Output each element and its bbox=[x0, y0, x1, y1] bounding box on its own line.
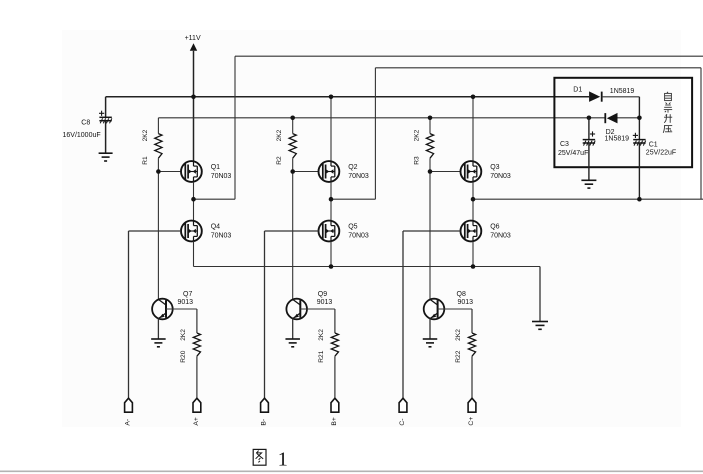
svg-text:70N03: 70N03 bbox=[490, 173, 511, 180]
bootstrap boost box outline bbox=[554, 78, 692, 167]
wire phase C to bootstrap return bbox=[473, 198, 703, 200]
figure caption 图 bbox=[253, 449, 266, 465]
svg-text:1: 1 bbox=[278, 448, 288, 470]
wire R2 bottom to gate node bbox=[292, 158, 294, 171]
svg-text:Q1: Q1 bbox=[211, 164, 220, 171]
wire R20 bottom to connector bbox=[196, 356, 198, 398]
resistor R1 2K2 bbox=[155, 134, 162, 159]
junction Q6 source bbox=[471, 264, 476, 269]
svg-text:Q6: Q6 bbox=[490, 224, 499, 231]
page boundary gray line bbox=[0, 470, 703, 472]
wire input A- drop bbox=[128, 231, 130, 398]
junction D2 cathode C3 top bbox=[587, 116, 592, 121]
svg-text:9013: 9013 bbox=[458, 299, 474, 306]
svg-text:C+: C+ bbox=[468, 417, 475, 426]
wire +11V supply vertical to Q1 drain bbox=[193, 51, 195, 161]
wire gate node R3 down to driver collector bbox=[429, 172, 431, 300]
svg-text:D1: D1 bbox=[573, 86, 582, 93]
svg-text:9013: 9013 bbox=[178, 299, 194, 306]
svg-text:2K2: 2K2 bbox=[414, 129, 421, 141]
svg-text:A-: A- bbox=[125, 419, 132, 426]
connector B- bbox=[261, 398, 269, 412]
wire phase A to feedback riser bbox=[194, 198, 236, 200]
wire phase A feedback vertical bbox=[234, 56, 236, 199]
ground below Q7 emitter bbox=[151, 339, 166, 347]
svg-text:C8: C8 bbox=[81, 120, 90, 127]
wire gate of Q4 bbox=[129, 230, 182, 232]
wire R1 bottom to gate node bbox=[157, 158, 159, 171]
wire Q6 drain from phase C bbox=[472, 199, 474, 220]
transistor Q4 MOSFET 70N03 bbox=[181, 221, 202, 242]
junction phase node A bbox=[191, 197, 196, 202]
junction Q2 drain on rail bbox=[329, 95, 334, 100]
wire gate of Q5 bbox=[265, 230, 319, 232]
capacitor C8 16V/1000uF electrolytic bbox=[99, 111, 112, 124]
caption text 自举升压 (bootstrap boost) bbox=[663, 92, 672, 133]
svg-text:R2: R2 bbox=[276, 156, 283, 165]
power +11V arrow symbol bbox=[190, 43, 197, 51]
svg-text:2K2: 2K2 bbox=[180, 329, 187, 341]
wire gate of Q3 bbox=[430, 171, 461, 173]
transistor Q6 MOSFET 70N03 bbox=[461, 221, 482, 242]
capacitor C3 25V/47uF electrolytic bbox=[583, 131, 596, 145]
connector B+ bbox=[331, 398, 339, 412]
wire R3 top stub bbox=[429, 118, 431, 134]
svg-text:2K2: 2K2 bbox=[318, 329, 325, 341]
svg-text:9013: 9013 bbox=[317, 299, 333, 306]
ground main power bbox=[532, 322, 548, 330]
junction Q5 source bbox=[329, 264, 334, 269]
junction gate node A bbox=[156, 169, 161, 174]
wire Q3 source to phase C bbox=[472, 182, 474, 199]
svg-text:70N03: 70N03 bbox=[211, 233, 232, 240]
svg-text:Q7: Q7 bbox=[183, 291, 192, 298]
svg-text:1N5819: 1N5819 bbox=[605, 136, 630, 143]
resistor R21 2K2 bbox=[331, 333, 338, 356]
wire phase B to feedback riser bbox=[331, 198, 375, 200]
wire +11V rail horizontal bbox=[106, 96, 589, 98]
connector A+ bbox=[193, 398, 201, 412]
svg-text:C-: C- bbox=[399, 418, 406, 425]
junction phase node C bbox=[471, 197, 476, 202]
wire D2 anode to C1 branch bbox=[618, 117, 640, 119]
svg-text:R21: R21 bbox=[318, 350, 325, 362]
wire R22 bottom to connector bbox=[471, 356, 473, 398]
svg-text:R1: R1 bbox=[142, 156, 149, 165]
connector A- bbox=[125, 398, 133, 412]
svg-text:Q4: Q4 bbox=[211, 224, 220, 231]
svg-text:70N03: 70N03 bbox=[348, 173, 369, 180]
wire C1 bottom to phase C line bbox=[638, 143, 640, 199]
wire phase B feedback vertical bbox=[374, 68, 376, 199]
wire R3 bottom to gate node bbox=[429, 158, 431, 171]
svg-text:A+: A+ bbox=[193, 417, 200, 426]
wire R22 top stub bbox=[471, 309, 473, 333]
wire Q7 emitter to ground bbox=[157, 319, 159, 339]
wire gate node R2 down to driver collector bbox=[292, 172, 294, 300]
wire common source line bbox=[194, 266, 541, 268]
wire R2 top stub bbox=[292, 118, 294, 134]
wire base of Q7 bbox=[166, 308, 197, 310]
wire C1 branch vertical bbox=[638, 97, 640, 140]
wire Q9 emitter to ground bbox=[292, 319, 294, 339]
junction gate node B bbox=[290, 169, 295, 174]
svg-text:70N03: 70N03 bbox=[490, 233, 511, 240]
wire Q5 drain from phase B bbox=[330, 199, 332, 220]
wire R20 top stub bbox=[196, 309, 198, 333]
svg-text:2K2: 2K2 bbox=[455, 329, 462, 341]
svg-text:R3: R3 bbox=[414, 156, 421, 165]
transistor Q9 9013 bbox=[286, 299, 307, 320]
junction D2 anode C1 top bbox=[637, 116, 642, 121]
canvas background bbox=[62, 30, 681, 427]
wire base of Q9 bbox=[300, 308, 335, 310]
wire Q6 source down bbox=[472, 241, 474, 266]
ground below Q8 emitter bbox=[423, 339, 438, 347]
wire Q5 source down bbox=[330, 241, 332, 266]
resistor R20 2K2 bbox=[193, 333, 200, 356]
wire common source to ground bbox=[539, 267, 541, 322]
svg-text:25V/47uF: 25V/47uF bbox=[558, 150, 588, 157]
transistor Q8 9013 bbox=[424, 299, 445, 320]
wire C8 bottom to ground bbox=[105, 121, 107, 154]
wire D1 cathode to C1 top corner bbox=[602, 96, 640, 98]
wire gate of Q2 bbox=[293, 171, 319, 173]
junction Q3 drain on rail bbox=[471, 95, 476, 100]
ground below C3 bbox=[581, 180, 596, 188]
wire phase A feedback top horizontal bbox=[235, 55, 703, 57]
wire gate node R1 down to driver collector bbox=[157, 172, 159, 300]
svg-text:C3: C3 bbox=[560, 141, 569, 148]
svg-text:25V/22uF: 25V/22uF bbox=[646, 150, 676, 157]
svg-text:C1: C1 bbox=[649, 141, 658, 148]
svg-text:1N5819: 1N5819 bbox=[610, 88, 635, 95]
svg-text:2K2: 2K2 bbox=[142, 129, 149, 141]
transistor Q1 MOSFET 70N03 bbox=[181, 161, 202, 182]
connector C+ bbox=[468, 398, 476, 412]
wire Q2 source to phase B bbox=[330, 182, 332, 199]
svg-text:2K2: 2K2 bbox=[276, 129, 283, 141]
wire Q2 drain from rail bbox=[330, 97, 332, 161]
wire C8 top from rail bbox=[105, 97, 107, 118]
wire R21 bottom to connector bbox=[334, 356, 336, 398]
transistor Q3 MOSFET 70N03 bbox=[461, 161, 482, 182]
svg-text:+11V: +11V bbox=[185, 35, 201, 42]
wire R1 top stub bbox=[157, 118, 159, 134]
svg-text:R22: R22 bbox=[455, 350, 462, 362]
wire phase B feedback top horizontal bbox=[375, 67, 701, 69]
svg-text:70N03: 70N03 bbox=[348, 233, 369, 240]
wire right edge vertical to bootstrap return bbox=[700, 68, 702, 199]
wire Q1 source to phase A bbox=[193, 182, 195, 199]
wire gate of Q6 bbox=[403, 230, 461, 232]
wire Q4 drain from phase A bbox=[193, 199, 195, 220]
wire Q4 source down bbox=[193, 241, 195, 266]
junction gate node C bbox=[428, 169, 433, 174]
svg-text:70N03: 70N03 bbox=[211, 173, 232, 180]
wire C3 bottom to ground bbox=[588, 143, 590, 180]
svg-text:Q3: Q3 bbox=[490, 164, 499, 171]
transistor Q5 MOSFET 70N03 bbox=[319, 221, 340, 242]
wire Q8 emitter to ground bbox=[429, 319, 431, 339]
junction R2 top on bootstrap rail bbox=[290, 116, 295, 121]
svg-text:Q8: Q8 bbox=[457, 291, 466, 298]
junction C1 bottom on phase C line bbox=[637, 197, 642, 202]
svg-text:B-: B- bbox=[261, 419, 268, 426]
junction phase node B bbox=[329, 197, 334, 202]
transistor Q7 9013 bbox=[152, 299, 173, 320]
capacitor C1 25V/22uF electrolytic bbox=[633, 133, 646, 146]
wire bootstrap gate-pullup rail bbox=[158, 117, 605, 119]
resistor R3 2K2 bbox=[426, 134, 433, 159]
transistor Q2 MOSFET 70N03 bbox=[319, 161, 340, 182]
diode D2 1N5819 bbox=[605, 113, 617, 124]
ground below Q9 emitter bbox=[285, 339, 300, 347]
junction R3 top on bootstrap rail bbox=[428, 116, 433, 121]
wire R21 top stub bbox=[334, 309, 336, 333]
connector C- bbox=[399, 398, 407, 412]
wire base of Q8 bbox=[438, 308, 472, 310]
svg-text:Q2: Q2 bbox=[348, 164, 357, 171]
svg-text:Q9: Q9 bbox=[318, 291, 327, 298]
wire input B- drop bbox=[264, 231, 266, 398]
ground below C8 bbox=[99, 153, 113, 161]
resistor R22 2K2 bbox=[468, 333, 475, 356]
diode D1 1N5819 bbox=[589, 91, 602, 102]
junction Q1 drain on rail bbox=[191, 95, 196, 100]
svg-text:16V/1000uF: 16V/1000uF bbox=[63, 132, 101, 139]
wire gate of Q1 bbox=[158, 171, 181, 173]
wire Q3 drain from rail bbox=[472, 97, 474, 161]
wire input C- drop bbox=[402, 231, 404, 398]
wire C3 top stub bbox=[588, 118, 590, 140]
svg-text:Q5: Q5 bbox=[348, 224, 357, 231]
resistor R2 2K2 bbox=[289, 134, 296, 159]
svg-text:B+: B+ bbox=[331, 417, 338, 426]
svg-text:R20: R20 bbox=[180, 350, 187, 362]
